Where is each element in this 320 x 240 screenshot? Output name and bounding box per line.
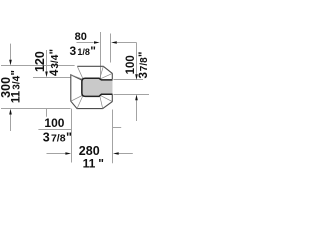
svg-text:37/8": 37/8" — [138, 52, 149, 79]
svg-text:113/4": 113/4" — [11, 70, 23, 103]
svg-text:37/8": 37/8" — [43, 131, 72, 145]
svg-text:100: 100 — [44, 116, 64, 130]
svg-text:": " — [98, 156, 104, 170]
svg-text:120: 120 — [33, 51, 47, 72]
svg-text:11: 11 — [83, 156, 96, 170]
svg-text:100: 100 — [125, 55, 137, 74]
svg-text:31/8": 31/8" — [70, 44, 97, 58]
svg-text:43/4": 43/4" — [49, 49, 61, 76]
svg-text:80: 80 — [75, 31, 87, 43]
